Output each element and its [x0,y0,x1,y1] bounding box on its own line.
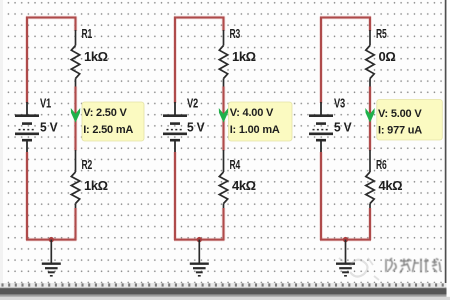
wire from V2 minus down to bottom node [173,152,177,240]
svg-text:R3: R3 [230,27,241,41]
watermark text (blurred gray CJK-like marks) [386,258,440,273]
dc source V2 5 V (battery) [163,102,187,153]
resistor R1 [71,30,79,88]
resistor R6 [366,150,374,209]
svg-text:1kΩ: 1kΩ [84,49,108,64]
ground circuit 3 [336,240,355,276]
measurement probe arrow circuit 2 [219,108,228,123]
wire from R2 down to bottom node [74,208,78,240]
svg-text:V3: V3 [334,97,345,111]
svg-text:R5: R5 [376,27,387,41]
window bottom dark band [0,287,447,290]
wire between R5 and R6 (probe point) [368,87,372,151]
wire left (top of V1) [25,17,29,104]
wire bottom circuit 3 [320,238,371,242]
dc source V3 5 V (battery) [309,102,333,153]
wire top-right corner down to R1 [74,17,78,32]
wire top circuit 1 [26,16,77,20]
wire top circuit 2 [174,16,225,20]
wire from V1 minus down to bottom node [25,152,29,240]
measurement probe arrow circuit 1 [71,108,80,123]
resistor R5 [366,30,374,88]
ground circuit 2 [190,240,209,276]
window bottom light band [0,297,450,300]
wire left (top of V2) [173,17,177,104]
wire bottom circuit 2 [174,238,225,242]
junction node circuit 2 [197,237,202,242]
wire from R6 down to bottom node [368,208,372,240]
dc source V1 5 V (battery) [15,102,39,153]
svg-text:R2: R2 [82,158,93,172]
junction node circuit 1 [49,237,54,242]
svg-text:V: 4.00 V: V: 4.00 V [230,107,274,119]
window bottom mid band [0,294,447,296]
svg-text:V2: V2 [187,97,198,111]
probe readout box circuit 3 [377,100,443,141]
svg-text:R1: R1 [82,27,93,41]
svg-text:R4: R4 [230,158,241,172]
svg-text:1kΩ: 1kΩ [232,49,256,64]
wire between R1 and R2 (probe point) [74,87,78,151]
svg-text:5 V: 5 V [334,120,352,135]
resistor R2 [71,150,79,209]
window right border [445,0,447,290]
svg-text:4kΩ: 4kΩ [379,178,403,193]
resistor R3 [219,30,227,88]
wire from R4 down to bottom node [222,208,226,240]
wire bottom circuit 1 [26,238,77,242]
watermark logo blob [339,258,379,280]
junction node circuit 3 [343,237,348,242]
svg-text:1kΩ: 1kΩ [84,178,108,193]
ground circuit 1 [42,240,61,276]
svg-text:I: 1.00 mA: I: 1.00 mA [230,124,280,136]
wire from V3 minus down to bottom node [319,152,323,240]
svg-text:4kΩ: 4kΩ [232,178,256,193]
measurement probe arrow circuit 3 [365,108,374,123]
bottom tick row [3,283,443,286]
probe readout box circuit 1 [82,102,144,141]
svg-text:5 V: 5 V [187,120,205,135]
wire top-right corner down to R5 [368,17,372,32]
svg-text:V: 5.00 V: V: 5.00 V [378,108,422,120]
svg-text:V: 2.50 V: V: 2.50 V [83,107,127,119]
svg-text:5 V: 5 V [40,120,58,135]
wire left (top of V3) [319,17,323,104]
probe readout box circuit 2 [229,102,293,141]
svg-text:0Ω: 0Ω [379,49,396,64]
wire top circuit 3 [320,16,371,20]
resistor R4 [219,150,227,209]
svg-text:I: 977 uA: I: 977 uA [378,124,422,136]
wire top-right corner down to R3 [222,17,226,32]
svg-text:R6: R6 [376,158,387,172]
svg-text:V1: V1 [40,97,51,111]
bottom tick row underlay [0,283,447,288]
wire between R3 and R4 (probe point) [222,87,226,151]
svg-text:I: 2.50 mA: I: 2.50 mA [83,124,133,136]
